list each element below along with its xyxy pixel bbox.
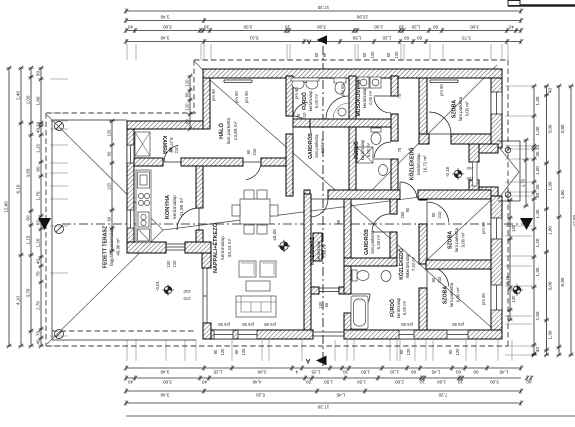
svg-text:33,44 m²: 33,44 m² — [227, 238, 233, 257]
svg-text:1,20: 1,20 — [535, 238, 540, 247]
wall: nappali east / kazanhaz west — [304, 194, 311, 330]
svg-text:3,50: 3,50 — [243, 25, 252, 30]
svg-text:pm 60: pm 60 — [340, 84, 345, 96]
svg-text:1,10: 1,10 — [390, 369, 399, 374]
svg-text:45: 45 — [535, 184, 540, 190]
dimension chain top line 3 — [126, 30, 521, 32]
svg-text:16,72 m²: 16,72 m² — [422, 155, 427, 173]
svg-text:3,00: 3,00 — [548, 124, 553, 133]
outdoor level mark east — [513, 286, 521, 294]
svg-text:3,80: 3,80 — [560, 124, 565, 133]
svg-text:120: 120 — [106, 182, 111, 190]
svg-text:kerámialap: kerámialap — [172, 195, 178, 219]
svg-text:pm 90: pm 90 — [211, 89, 216, 101]
svg-text:1,56: 1,56 — [352, 36, 361, 41]
svg-text:2,00: 2,00 — [395, 379, 404, 384]
svg-text:90: 90 — [405, 207, 410, 212]
svg-text:40: 40 — [526, 379, 532, 384]
svg-text:90: 90 — [168, 147, 173, 152]
entrance south stub wall — [469, 187, 498, 196]
svg-text:2,00: 2,00 — [374, 25, 383, 30]
svg-text:30: 30 — [204, 25, 210, 30]
terrace sliding door — [166, 244, 185, 250]
kamra door arc — [164, 161, 181, 163]
svg-text:40: 40 — [35, 339, 40, 345]
svg-text:210: 210 — [252, 148, 257, 156]
dimension chain bottom line 2 — [126, 377, 521, 379]
kazanhaz door arc — [310, 198, 328, 200]
chairs — [244, 190, 254, 199]
svg-text:pm 90: pm 90 — [452, 322, 464, 327]
bottom frame line — [126, 415, 575, 417]
entry level mark — [454, 170, 462, 178]
svg-text:90: 90 — [213, 349, 218, 354]
wall: kamra north — [127, 121, 209, 129]
furdo1 corner shower — [326, 96, 349, 119]
window dim chains left inner — [111, 121, 113, 251]
svg-text:kerámialap: kerámialap — [316, 240, 321, 261]
svg-text:40: 40 — [509, 25, 515, 30]
svg-text:pm 60: pm 60 — [294, 87, 299, 99]
svg-text:3,00: 3,00 — [470, 25, 479, 30]
svg-text:75: 75 — [296, 113, 301, 118]
svg-text:1,30: 1,30 — [535, 126, 540, 135]
halo door arc — [243, 161, 261, 163]
svg-text:KONYHA: KONYHA — [165, 195, 171, 219]
svg-text:GARDRÓB: GARDRÓB — [306, 133, 314, 159]
svg-text:pm 90: pm 90 — [218, 322, 230, 327]
szoba2 door arc — [426, 202, 428, 224]
furdo2 door arc — [374, 158, 391, 160]
wall: szoba2/szoba3 divider — [426, 260, 491, 269]
svg-text:1,00: 1,00 — [535, 166, 540, 175]
svg-text:10: 10 — [458, 379, 464, 384]
wall bits beside rear door — [311, 287, 319, 294]
dimension chain left line 4 — [40, 68, 42, 346]
section line B horizontal — [62, 223, 528, 225]
svg-text:60: 60 — [404, 36, 410, 41]
svg-text:60: 60 — [456, 369, 462, 374]
svg-text:SZOBA: SZOBA — [452, 100, 458, 118]
svg-text:120: 120 — [184, 79, 189, 87]
svg-text:49,96 m²: 49,96 m² — [115, 238, 120, 256]
window east SZOBA3 — [491, 285, 502, 310]
dimension chain right line 4 (12,60) — [570, 86, 572, 355]
svg-text:60: 60 — [25, 215, 30, 221]
svg-text:120: 120 — [184, 103, 189, 111]
svg-text:90: 90 — [336, 219, 341, 224]
svg-text:1,15: 1,15 — [25, 235, 30, 244]
svg-text:90: 90 — [184, 92, 189, 97]
svg-text:12,60: 12,60 — [3, 201, 8, 213]
svg-text:3,40: 3,40 — [160, 369, 169, 374]
svg-text:40: 40 — [35, 259, 40, 265]
svg-text:120: 120 — [455, 348, 460, 356]
svg-text:10: 10 — [35, 122, 40, 128]
dimension chain left line 2 — [20, 68, 22, 346]
wall: furdo1/mosokonyha divider — [349, 76, 356, 119]
svg-text:90: 90 — [405, 273, 410, 278]
svg-text:1,30: 1,30 — [535, 267, 540, 276]
svg-text:120: 120 — [220, 348, 225, 356]
svg-text:90: 90 — [399, 349, 404, 354]
svg-text:120: 120 — [511, 295, 516, 303]
terrace level mark — [164, 286, 172, 294]
svg-text:1,70: 1,70 — [35, 191, 40, 200]
svg-text:4,00 m²: 4,00 m² — [368, 90, 373, 105]
roof ridge line — [163, 197, 420, 230]
svg-text:3,40: 3,40 — [160, 15, 169, 20]
furdo1 door arc — [293, 118, 310, 120]
svg-text:FÜRDŐ: FÜRDŐ — [301, 92, 308, 110]
svg-text:210: 210 — [174, 146, 179, 154]
svg-text:A: A — [305, 357, 310, 364]
window north FURDO1 — [301, 80, 315, 83]
svg-text:1,80: 1,80 — [35, 96, 40, 105]
svg-text:240: 240 — [466, 166, 473, 171]
svg-text:30: 30 — [343, 369, 349, 374]
dimension chain top line 1 (17,30) — [126, 10, 521, 12]
svg-text:fagyálló kerámialap: fagyálló kerámialap — [109, 228, 114, 266]
svg-text:10: 10 — [535, 145, 540, 151]
exterior wall: west (konyha) — [127, 121, 134, 251]
svg-text:10: 10 — [399, 25, 405, 30]
svg-text:GARDRÓB: GARDRÓB — [362, 229, 370, 255]
dimension chain left line 1 (12,60) — [8, 68, 10, 346]
svg-text:40: 40 — [128, 25, 134, 30]
sw corner pier south — [203, 323, 211, 339]
coffee table — [246, 281, 270, 291]
furdo3 bathtub — [351, 296, 368, 329]
extension lines top — [127, 44, 508, 60]
roof hip line east top — [366, 65, 497, 196]
exterior wall: east lower — [491, 196, 502, 339]
svg-text:1,25: 1,25 — [311, 369, 320, 374]
porch column b — [505, 192, 511, 198]
window south FURDO3 — [399, 330, 414, 339]
svg-text:pm 90: pm 90 — [244, 91, 249, 103]
roof hip line west bottom — [47, 230, 163, 344]
svg-text:10: 10 — [420, 379, 426, 384]
window west konyha b — [127, 210, 134, 228]
svg-text:210: 210 — [302, 112, 307, 120]
svg-text:17,30: 17,30 — [317, 5, 329, 10]
dimension chain right line 3 — [558, 86, 560, 355]
window south NAPPALI a — [214, 330, 233, 339]
window north HALO — [224, 80, 252, 83]
svg-text:90: 90 — [184, 119, 189, 124]
porch hip lines — [498, 146, 519, 199]
window north SZOBA1 — [430, 80, 458, 83]
svg-text:9,00 m²: 9,00 m² — [460, 232, 465, 247]
window dim chain east — [509, 200, 511, 320]
svg-text:60: 60 — [386, 52, 391, 57]
svg-text:kerámialap: kerámialap — [360, 139, 365, 160]
svg-text:120: 120 — [406, 348, 411, 356]
section line A vertical — [322, 46, 324, 368]
svg-text:1,30: 1,30 — [548, 330, 553, 339]
szoba3 door arc — [426, 266, 428, 288]
svg-text:60: 60 — [314, 52, 319, 57]
svg-text:kerámialap: kerámialap — [362, 87, 367, 108]
svg-text:FÜRDŐ: FÜRDŐ — [389, 299, 396, 317]
porch slab — [498, 141, 520, 201]
svg-text:1,20: 1,20 — [35, 238, 40, 247]
svg-text:5,20: 5,20 — [256, 392, 265, 397]
svg-text:60: 60 — [106, 151, 111, 156]
svg-text:pm 90: pm 90 — [481, 222, 486, 234]
svg-text:5,96 m²: 5,96 m² — [320, 138, 325, 153]
furdo2 shower — [357, 147, 373, 163]
svg-text:30: 30 — [306, 379, 312, 384]
section marker A (bottom) — [316, 356, 327, 366]
svg-text:7,60 m²: 7,60 m² — [322, 243, 327, 258]
svg-text:60: 60 — [417, 36, 423, 41]
svg-text:60: 60 — [324, 302, 329, 307]
gardrob2 door arc — [372, 231, 390, 233]
svg-text:4: 4 — [295, 369, 298, 374]
svg-text:4,40: 4,40 — [252, 379, 261, 384]
svg-text:90: 90 — [246, 149, 251, 154]
svg-text:60: 60 — [106, 216, 111, 221]
kitchen counter — [136, 170, 151, 242]
svg-text:120: 120 — [394, 51, 399, 59]
svg-text:60: 60 — [411, 369, 417, 374]
svg-text:90: 90 — [431, 212, 436, 217]
gardrob1 door arc — [292, 116, 294, 134]
svg-text:100: 100 — [318, 301, 323, 309]
furdo2 wc — [371, 128, 381, 132]
furdo1 basins — [292, 79, 304, 89]
roof valley long diagonal — [210, 80, 491, 327]
svg-text:60: 60 — [362, 52, 367, 57]
svg-text:1,25: 1,25 — [213, 369, 222, 374]
svg-text:40: 40 — [35, 128, 40, 134]
svg-text:lam.parketta: lam.parketta — [226, 117, 232, 144]
svg-text:pm 90: pm 90 — [439, 84, 444, 96]
furdo2 basin — [379, 165, 388, 176]
title block bar — [508, 4, 575, 6]
svg-text:1,45: 1,45 — [431, 369, 440, 374]
dimension chain top line 2 (3,40 / 13,90) — [126, 20, 521, 22]
mosokonyha door arc — [374, 95, 391, 97]
svg-text:90: 90 — [473, 369, 479, 374]
svg-text:50: 50 — [35, 71, 40, 77]
entrance door leaf — [473, 162, 478, 186]
wall: halo west — [203, 78, 210, 129]
extension lines right — [505, 86, 532, 355]
szoba1 door arc — [429, 133, 451, 135]
boiler — [313, 233, 322, 261]
svg-text:lam.parketta: lam.parketta — [314, 134, 319, 158]
wall: mid horizontal — [304, 190, 310, 199]
svg-text:2,40: 2,40 — [15, 91, 20, 100]
svg-text:6,10: 6,10 — [15, 184, 20, 193]
roof hip line west top — [47, 115, 163, 230]
corner tick NW — [194, 61, 203, 70]
svg-text:120: 120 — [511, 224, 516, 232]
svg-text:6,30 m²: 6,30 m² — [376, 234, 381, 249]
mosokonyha washer dryer — [358, 77, 369, 88]
dimension chain bottom line 1 — [126, 367, 521, 369]
svg-text:210: 210 — [183, 289, 191, 294]
armchair a — [239, 261, 256, 277]
svg-text:2,00: 2,00 — [25, 95, 30, 104]
svg-text:3,73: 3,73 — [462, 36, 471, 41]
svg-text:lam.parketta: lam.parketta — [449, 282, 454, 307]
svg-text:1,90: 1,90 — [560, 190, 565, 199]
svg-text:pm 90: pm 90 — [234, 91, 239, 103]
svg-text:120: 120 — [106, 129, 111, 137]
window south NAPPALI b — [238, 330, 257, 339]
rear niche bottom lines — [313, 332, 344, 336]
svg-text:kerámialap: kerámialap — [416, 153, 421, 175]
svg-text:2,66: 2,66 — [257, 369, 266, 374]
wall: kazanhaz east — [344, 199, 351, 294]
svg-text:FEDETT TERASZ: FEDETT TERASZ — [103, 225, 109, 268]
sink — [138, 212, 149, 227]
svg-text:FÜRDŐ: FÜRDŐ — [353, 141, 360, 159]
exterior wall: south west part — [203, 330, 313, 339]
svg-text:9,00 m²: 9,00 m² — [464, 101, 469, 116]
section marker A (top) — [317, 35, 328, 44]
svg-text:40: 40 — [535, 347, 540, 353]
glass wall west nappali — [203, 268, 207, 323]
svg-text:1,50: 1,50 — [361, 369, 370, 374]
svg-text:kerámialap: kerámialap — [405, 253, 410, 274]
svg-text:10: 10 — [285, 25, 291, 30]
svg-text:9,00 m²: 9,00 m² — [455, 287, 460, 302]
svg-text:90: 90 — [448, 349, 453, 354]
svg-text:SZOBA: SZOBA — [448, 231, 454, 249]
svg-text:MOSÓKONYHA: MOSÓKONYHA — [354, 79, 362, 116]
svg-text:1,45: 1,45 — [336, 392, 345, 397]
svg-text:1,45: 1,45 — [499, 369, 508, 374]
kamra cupboard — [135, 132, 150, 156]
section marker B left — [38, 218, 51, 230]
svg-text:3,70: 3,70 — [25, 288, 30, 297]
svg-text:1,70: 1,70 — [520, 178, 525, 187]
sofa — [236, 296, 276, 317]
svg-text:lam.parketta: lam.parketta — [458, 96, 463, 121]
svg-text:lam.parketta: lam.parketta — [454, 227, 459, 252]
svg-text:40: 40 — [128, 379, 134, 384]
furdo3 basin — [381, 271, 391, 282]
svg-text:17,30: 17,30 — [317, 404, 329, 409]
wall: furdo1/gardrob1 divider — [293, 119, 310, 127]
svg-text:±0,00: ±0,00 — [272, 229, 277, 241]
svg-text:60: 60 — [433, 25, 439, 30]
hob — [138, 193, 143, 198]
svg-text:100: 100 — [466, 176, 473, 181]
svg-text:6,00 m²: 6,00 m² — [366, 142, 371, 157]
wall: mosokonyha east — [391, 76, 398, 96]
svg-text:pm 90: pm 90 — [481, 293, 486, 305]
fridge — [138, 229, 150, 241]
exterior wall: north — [203, 69, 502, 78]
svg-text:1,20: 1,20 — [382, 36, 391, 41]
wall: sw corner pier — [127, 242, 166, 253]
svg-text:13,90: 13,90 — [356, 15, 368, 20]
svg-text:75: 75 — [397, 147, 402, 152]
svg-text:40: 40 — [548, 88, 553, 94]
svg-text:40: 40 — [202, 379, 208, 384]
svg-text:1,30: 1,30 — [535, 209, 540, 218]
svg-text:11,90 m²: 11,90 m² — [179, 197, 185, 216]
exterior wall: south east part — [344, 330, 502, 339]
svg-text:1,50: 1,50 — [357, 379, 366, 384]
svg-text:30: 30 — [535, 193, 540, 199]
svg-text:90: 90 — [234, 349, 239, 354]
extension lines bottom — [127, 340, 512, 361]
svg-text:1,90: 1,90 — [548, 181, 553, 190]
terrace roof edge dashed — [52, 330, 196, 332]
svg-text:100: 100 — [166, 260, 171, 268]
svg-text:HÁLÓ: HÁLÓ — [217, 122, 225, 138]
furdo3 wc — [352, 270, 357, 281]
wall: corridor2 east — [419, 199, 427, 200]
svg-text:3,00: 3,00 — [490, 379, 499, 384]
svg-text:60: 60 — [35, 166, 40, 172]
wall: gardrob2 east — [390, 199, 397, 214]
svg-text:7,20: 7,20 — [438, 392, 447, 397]
roof overhang outline dashed — [46, 60, 508, 346]
svg-text:3,40: 3,40 — [160, 392, 169, 397]
svg-text:4,10: 4,10 — [15, 296, 20, 305]
svg-text:6,00 m²: 6,00 m² — [314, 93, 319, 108]
wall: pier2 L-shape — [185, 242, 211, 253]
window east SZOBA2 — [491, 218, 502, 239]
svg-text:pm 90: pm 90 — [242, 322, 254, 327]
svg-text:90: 90 — [431, 277, 436, 282]
svg-text:70: 70 — [35, 331, 40, 337]
svg-text:1,90: 1,90 — [548, 226, 553, 235]
svg-text:3,00: 3,00 — [163, 379, 172, 384]
svg-text:5,61: 5,61 — [249, 36, 258, 41]
terrace column middle-left — [55, 225, 64, 234]
dimension chain right line 2 — [546, 86, 548, 355]
svg-text:KÖZLEKEDŐ: KÖZLEKEDŐ — [409, 148, 416, 181]
wall: kamra/halo south — [134, 158, 163, 166]
svg-text:3,00: 3,00 — [163, 25, 172, 30]
wall: konyha east — [196, 166, 203, 208]
svg-text:6,00 m²: 6,00 m² — [402, 300, 407, 315]
svg-text:3,00: 3,00 — [317, 25, 326, 30]
terrace column top-left — [55, 122, 64, 131]
window east SZOBA1 — [491, 92, 502, 114]
svg-text:75: 75 — [397, 93, 402, 98]
svg-text:2,70: 2,70 — [35, 301, 40, 310]
svg-text:270: 270 — [183, 296, 191, 301]
window west konyha a — [127, 145, 134, 163]
svg-text:kerámialap: kerámialap — [308, 90, 313, 111]
svg-text:lam.parketta: lam.parketta — [370, 230, 375, 254]
svg-text:-0,18: -0,18 — [505, 275, 510, 286]
armchair b — [260, 261, 276, 277]
svg-text:6,90: 6,90 — [560, 277, 565, 286]
svg-text:3,40: 3,40 — [160, 36, 169, 41]
svg-text:7,32 m²: 7,32 m² — [411, 256, 416, 271]
dimension chain bottom line 4 (17,30) — [126, 402, 521, 404]
wall: szoba1 west — [419, 78, 427, 134]
wall: gardrob1/furdo2 divider — [349, 127, 356, 190]
konyha door arc — [198, 208, 200, 230]
svg-text:1,20: 1,20 — [411, 25, 420, 30]
svg-text:kerámialap: kerámialap — [220, 236, 226, 260]
svg-text:1,30: 1,30 — [535, 96, 540, 105]
svg-text:KAMRA: KAMRA — [161, 136, 167, 155]
dining table — [240, 199, 270, 224]
